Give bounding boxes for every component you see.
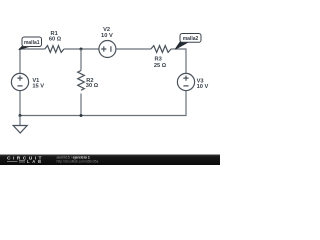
resistor R1 bbox=[45, 46, 64, 53]
svg-text:10 V: 10 V bbox=[101, 33, 113, 39]
svg-text:V2: V2 bbox=[103, 27, 110, 33]
label R1 value bbox=[49, 31, 62, 42]
wire R2 branch top bbox=[80, 49, 82, 71]
wire V2 to R3 bbox=[116, 48, 151, 50]
wire R3 to top-right corner and down bbox=[171, 49, 186, 73]
voltage source V2 bbox=[99, 41, 116, 58]
label V1 value bbox=[32, 78, 44, 90]
footer circuit title text bbox=[57, 156, 99, 164]
node bottom R2 junction bbox=[80, 114, 83, 117]
svg-text:30 Ω: 30 Ω bbox=[86, 83, 99, 89]
node junction top bbox=[80, 48, 83, 51]
label R3 value bbox=[154, 57, 167, 70]
svg-text:25 Ω: 25 Ω bbox=[154, 63, 167, 69]
svg-text:malla1: malla1 bbox=[24, 40, 40, 46]
resistor R2 bbox=[78, 71, 85, 91]
resistor R3 bbox=[151, 46, 171, 53]
footer watermark bar bbox=[0, 155, 220, 166]
svg-text:10 V: 10 V bbox=[197, 84, 209, 90]
svg-text:60 Ω: 60 Ω bbox=[49, 37, 62, 43]
node malla1 callout bbox=[19, 37, 42, 50]
wire top rail left segment with left rail top bbox=[20, 49, 45, 73]
svg-text:R3: R3 bbox=[155, 57, 162, 63]
voltage source V3 bbox=[177, 73, 194, 90]
wire left rail bottom bbox=[19, 91, 21, 116]
svg-text:http://circuitlab.com/c66c35a: http://circuitlab.com/c66c35a bbox=[57, 160, 99, 164]
ground bbox=[13, 116, 27, 134]
svg-text:malla2: malla2 bbox=[183, 36, 199, 42]
node malla2 callout bbox=[175, 34, 201, 50]
footer CircuitLab logo bbox=[7, 155, 42, 164]
label V2 value bbox=[101, 27, 113, 39]
wire V3 bottom to bottom rail bbox=[20, 91, 186, 116]
voltage source V1 bbox=[11, 73, 28, 90]
svg-text:LAB: LAB bbox=[27, 159, 41, 164]
label V3 value bbox=[197, 79, 209, 91]
wire R2 bottom bbox=[80, 94, 82, 116]
label R2 value bbox=[86, 78, 99, 89]
wire R1 to V2 bbox=[64, 48, 99, 50]
node bottom-left junction bbox=[19, 114, 22, 117]
svg-text:15 V: 15 V bbox=[32, 83, 44, 89]
